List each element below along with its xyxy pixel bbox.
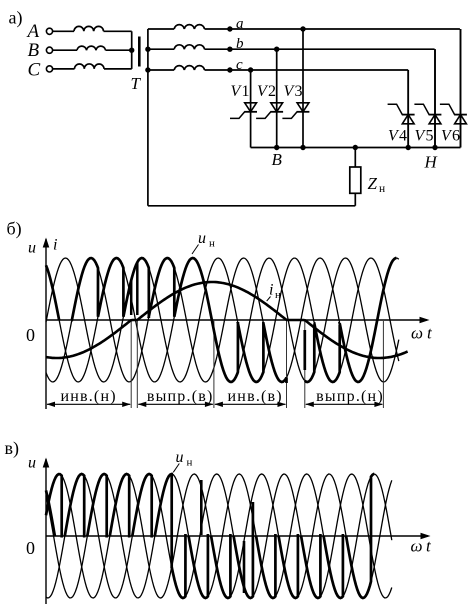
svg-text:C: C xyxy=(28,60,41,81)
svg-text:6: 6 xyxy=(452,128,460,145)
svg-text:a: a xyxy=(236,16,244,32)
svg-text:4: 4 xyxy=(399,128,407,145)
svg-text:u: u xyxy=(198,230,206,247)
svg-text:T: T xyxy=(131,74,142,93)
svg-text:u: u xyxy=(28,240,36,257)
svg-text:н: н xyxy=(379,183,385,195)
svg-text:б): б) xyxy=(7,219,22,240)
svg-text:н: н xyxy=(275,289,281,301)
svg-text:u: u xyxy=(28,455,36,472)
svg-text:3: 3 xyxy=(295,83,303,100)
svg-text:н: н xyxy=(187,457,193,469)
svg-text:Z: Z xyxy=(368,174,378,193)
svg-text:A: A xyxy=(26,21,40,42)
svg-text:в): в) xyxy=(5,438,20,459)
svg-text:c: c xyxy=(236,57,243,73)
svg-text:u: u xyxy=(176,449,184,466)
svg-text:i: i xyxy=(269,282,273,299)
svg-text:инв.(н): инв.(н) xyxy=(60,388,116,405)
svg-text:i: i xyxy=(53,237,57,254)
svg-text:выпр.(н): выпр.(н) xyxy=(316,388,384,405)
svg-text:ω: ω xyxy=(411,537,423,556)
svg-text:Н: Н xyxy=(424,153,439,172)
svg-text:а): а) xyxy=(9,8,23,29)
svg-text:В: В xyxy=(272,150,283,169)
svg-text:2: 2 xyxy=(268,83,276,100)
svg-text:н: н xyxy=(209,238,215,250)
svg-text:ω: ω xyxy=(411,324,423,343)
svg-text:b: b xyxy=(236,36,244,52)
svg-text:0: 0 xyxy=(26,538,35,558)
svg-text:1: 1 xyxy=(242,83,250,100)
svg-text:5: 5 xyxy=(426,128,434,145)
svg-text:B: B xyxy=(28,40,40,61)
svg-text:инв.(в): инв.(в) xyxy=(228,388,283,405)
svg-text:выпр.(в): выпр.(в) xyxy=(147,388,214,405)
svg-text:0: 0 xyxy=(26,325,35,345)
